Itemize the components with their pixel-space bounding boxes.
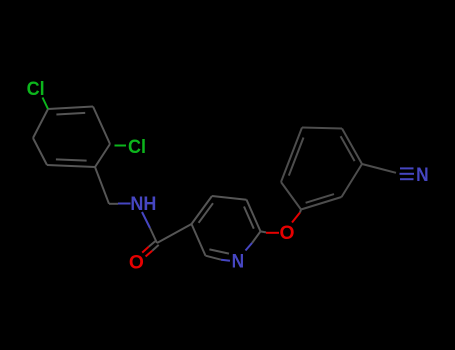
svg-text:O: O bbox=[129, 253, 144, 274]
svg-text:Cl: Cl bbox=[27, 79, 45, 100]
svg-text:Cl: Cl bbox=[128, 137, 146, 158]
svg-text:O: O bbox=[280, 223, 295, 244]
svg-text:N: N bbox=[232, 251, 245, 272]
svg-text:N: N bbox=[416, 165, 429, 186]
svg-text:NH: NH bbox=[130, 194, 156, 215]
